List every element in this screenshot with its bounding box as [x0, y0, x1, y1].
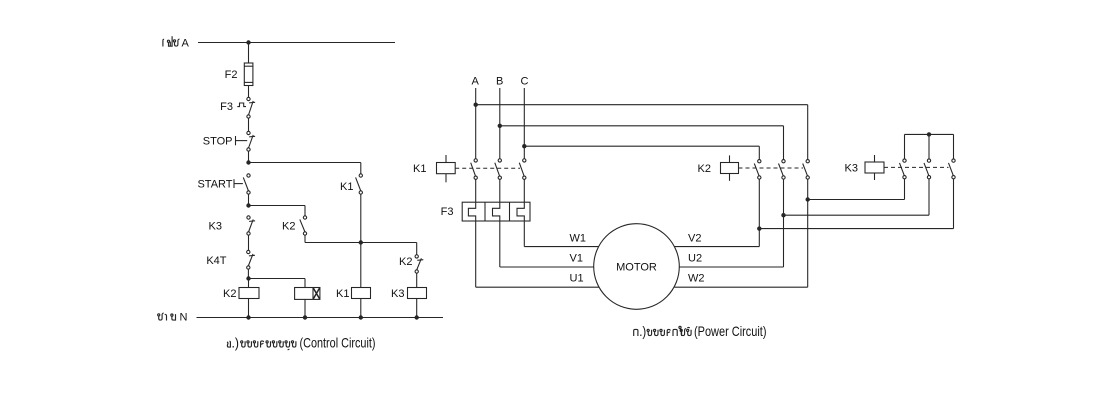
wire K2 coil to N rail	[248, 299, 250, 318]
wire rail to F2	[248, 43, 250, 64]
node B tap	[498, 124, 502, 128]
svg-text:V1: V1	[570, 253, 583, 265]
wire K1 coil to N rail	[360, 299, 362, 318]
node K3 on N rail	[415, 315, 419, 319]
node above K2 coil	[246, 276, 250, 280]
svg-text:U1: U1	[570, 273, 584, 285]
svg-text:MOTOR: MOTOR	[616, 262, 657, 274]
svg-text:START: START	[197, 178, 232, 190]
wire W1 feed	[524, 221, 599, 247]
node below START	[246, 203, 250, 207]
wire down to K1 aux	[360, 163, 362, 174]
svg-text:A: A	[182, 38, 190, 50]
svg-text:STOP: STOP	[203, 135, 233, 147]
link K2 dashed	[739, 167, 804, 169]
wire K2 pole2 down	[783, 179, 785, 215]
svg-text:W1: W1	[570, 233, 587, 245]
node K1 on N rail	[359, 315, 363, 319]
wire K2 pole3 down	[807, 179, 809, 199]
wire K3 to K4T	[248, 235, 250, 250]
contact K2 pole2	[782, 160, 785, 163]
wire down to timer coil	[304, 279, 306, 288]
svg-text:K2: K2	[223, 288, 236, 300]
pushbutton STOP (NC)	[236, 131, 256, 151]
svg-text:K3: K3	[391, 288, 404, 300]
svg-text:K1: K1	[336, 288, 349, 300]
svg-text:A: A	[472, 76, 480, 88]
contactor K3 coil symbol	[865, 155, 884, 180]
node K1 branch	[359, 240, 363, 244]
wire K2 interlock to K3 coil	[416, 273, 418, 287]
svg-text:.): .)	[232, 335, 240, 351]
contact K3 pole2	[927, 159, 930, 162]
wire branch to timer coil	[249, 278, 306, 280]
caption power circuit	[634, 323, 767, 339]
wire V2 to K2 pole1	[675, 229, 760, 247]
overload relay F3 (power)	[462, 202, 530, 221]
contact K1 pole2	[498, 159, 501, 162]
label phase A (Thai)	[163, 36, 190, 49]
wire down to K1 coil	[360, 243, 362, 288]
motor M	[594, 224, 680, 310]
fuse F2	[244, 63, 253, 86]
F3 element pole1	[468, 202, 475, 221]
node K2 on N rail	[246, 315, 250, 319]
wire U1 feed	[476, 221, 599, 287]
svg-text:N: N	[180, 312, 188, 324]
wire branch to K2 contact	[249, 205, 306, 207]
contact K2 (NO)	[303, 216, 306, 219]
wire K3 coil to N rail	[416, 299, 418, 318]
svg-text:K1: K1	[413, 163, 426, 175]
node V2 tap	[757, 226, 761, 230]
caption control circuit	[227, 335, 375, 351]
star bus	[905, 134, 954, 159]
contact K1 pole3	[523, 159, 526, 162]
contact K1 pole1	[474, 159, 477, 162]
wire node to K2 coil	[248, 279, 250, 288]
node C tap	[522, 144, 526, 148]
svg-text:U2: U2	[688, 253, 702, 265]
svg-text:K1: K1	[340, 181, 353, 193]
node A tap	[474, 103, 478, 107]
svg-text:(Control Circuit): (Control Circuit)	[300, 335, 376, 351]
wire cross link	[305, 242, 417, 244]
wire W2 tap to K3 pole1	[808, 199, 905, 201]
svg-text:B: B	[496, 76, 503, 88]
contactor K1 coil symbol	[437, 155, 456, 182]
wire K3 pole2 down	[928, 179, 930, 215]
wire branch to K1 aux	[249, 162, 361, 164]
wire K3 pole3 down	[953, 179, 955, 229]
svg-text:W2: W2	[688, 273, 705, 285]
wire V2 tap to K3 pole3	[759, 228, 953, 230]
wire A tap to K2 pole3	[476, 105, 808, 160]
wire U2 tap to K3 pole2	[784, 214, 930, 216]
svg-text:K3: K3	[209, 220, 222, 232]
coil K4T timer	[295, 288, 320, 300]
node phase-A top rail	[198, 42, 395, 44]
wire K1 aux down	[360, 194, 362, 242]
contact K2 pole1	[758, 160, 761, 163]
wire phase A drop	[475, 88, 477, 159]
svg-text:F3: F3	[220, 101, 233, 113]
overload contact F3 (NC)	[237, 97, 255, 118]
wire U2 to K2 pole2	[679, 215, 783, 267]
contact K3 pole3	[952, 159, 955, 162]
svg-text:K2: K2	[282, 220, 295, 232]
pushbutton START (NO)	[234, 174, 250, 194]
node timer on N rail	[303, 315, 307, 319]
coil K1	[352, 288, 371, 299]
wire down to K2 interlock	[416, 243, 418, 255]
wire K1 pole2 to F3	[499, 179, 501, 202]
node W2 tap	[806, 197, 810, 201]
node below STOP	[246, 160, 250, 164]
wire K1 pole1 to F3	[475, 179, 477, 202]
wire down to K2 contact	[304, 206, 306, 216]
contact K3 pole1	[903, 159, 906, 162]
contact K2 interlock (NC)	[415, 255, 418, 258]
wire F2 to F3	[248, 86, 250, 98]
svg-text:K4T: K4T	[206, 255, 226, 267]
wire K2 pole1 down	[758, 179, 760, 229]
wire K1 pole3 to F3	[523, 179, 525, 202]
wire START to node	[248, 194, 250, 205]
link K3 dashed	[884, 166, 949, 168]
wire C tap to K2 pole1	[524, 146, 759, 159]
svg-text:(Power Circuit): (Power Circuit)	[694, 323, 767, 339]
svg-text:C: C	[521, 76, 529, 88]
wire STOP to node	[248, 151, 250, 162]
svg-text:F3: F3	[441, 206, 454, 218]
svg-text:V2: V2	[688, 233, 701, 245]
svg-text:F2: F2	[225, 69, 238, 81]
wire K3 pole1 down	[904, 179, 906, 200]
node neutral rail N	[197, 317, 444, 319]
wire F3 to STOP	[248, 118, 250, 131]
wire timer coil to N rail	[304, 299, 306, 317]
wire K4T to node	[247, 269, 249, 278]
contact K3 interlock (NC)	[247, 216, 250, 219]
svg-text:.): .)	[639, 323, 646, 339]
node U2 tap	[781, 213, 785, 217]
coil K2	[239, 288, 259, 299]
label line N (Thai)	[158, 312, 188, 324]
svg-text:K2: K2	[698, 163, 711, 175]
F3 element pole3	[517, 202, 524, 221]
contact K2 pole3	[806, 160, 809, 163]
wire W2 to K2 pole3	[675, 200, 808, 288]
svg-text:K3: K3	[845, 163, 858, 175]
wire K2 contact down	[304, 235, 306, 242]
wire phase C drop	[523, 88, 525, 159]
coil K3	[408, 288, 427, 299]
wire B tap to K2 pole2	[500, 126, 784, 160]
wire phase B drop	[499, 88, 501, 159]
contactor K2 coil symbol	[721, 155, 739, 180]
link K1 dashed	[455, 167, 520, 169]
contact K1 aux (NO)	[359, 174, 362, 177]
junction on top rail	[246, 40, 250, 44]
F3 element pole2	[493, 202, 500, 221]
node star bus	[927, 132, 931, 136]
contact K4T timer (NC)	[247, 250, 250, 253]
wire V1 feed	[500, 221, 594, 267]
svg-text:K2: K2	[399, 256, 412, 268]
